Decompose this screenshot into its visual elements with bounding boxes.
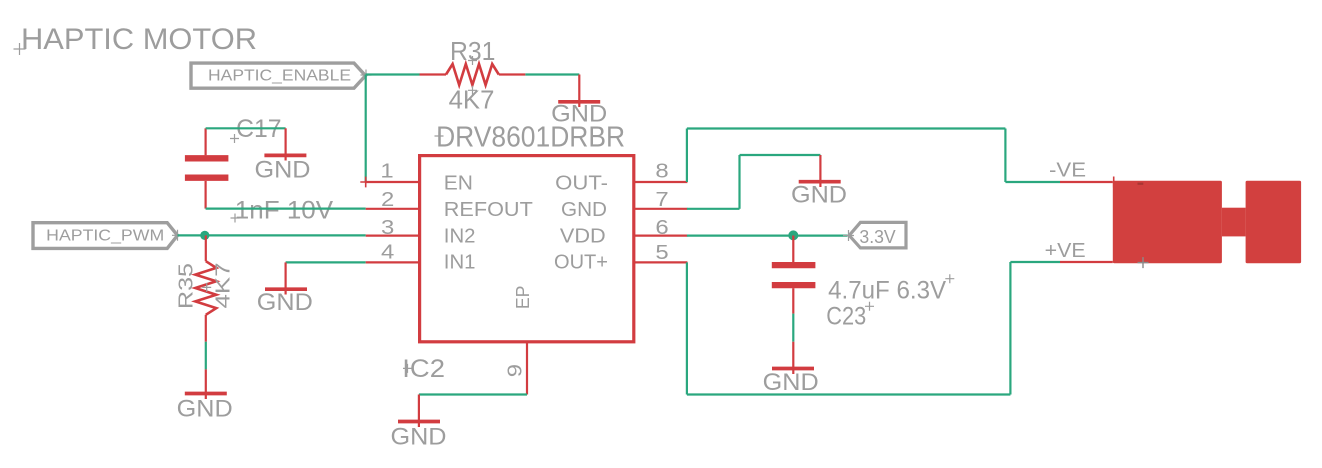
wire HAPTIC_ENABLE down to pin 1: [365, 75, 367, 183]
motor pin +VE stub: [1060, 261, 1113, 263]
pin 4 IN1 stub: [366, 261, 420, 263]
DRV label origin cross: [435, 132, 444, 141]
resistor R35: [195, 235, 216, 341]
svg-text:IN1: IN1: [444, 252, 476, 274]
svg-text:9: 9: [505, 364, 527, 377]
svg-text:1nF 10V: 1nF 10V: [235, 196, 334, 224]
pin 3 IN2 stub: [366, 235, 420, 237]
svg-text:GND: GND: [791, 182, 847, 209]
svg-text:6: 6: [655, 217, 668, 239]
wire pin 5 OUT+ down and right to +VE: [687, 262, 1060, 395]
wire R35 to GND: [205, 342, 207, 370]
R35 origin cross: [202, 283, 211, 292]
ground GND of pin 4: [257, 262, 313, 316]
resistor R31: [420, 64, 526, 85]
title origin cross: [14, 43, 26, 55]
wire R31 to GND drop point: [525, 73, 579, 75]
svg-text:EN: EN: [444, 173, 473, 195]
svg-text:4K7: 4K7: [449, 85, 495, 115]
motor minus polarity mark: [1138, 183, 1144, 185]
1nF origin cross: [231, 214, 240, 223]
R31 text origin crosses: [468, 56, 477, 95]
svg-text:DRV8601DRBR: DRV8601DRBR: [436, 122, 625, 154]
ground GND of pin 7: [791, 155, 847, 209]
svg-text:5: 5: [655, 242, 668, 264]
pin 8 OUT- stub: [634, 181, 688, 183]
svg-text:-VE: -VE: [1049, 160, 1086, 182]
C23 origin cross: [865, 302, 874, 311]
svg-text:OUT-: OUT-: [555, 173, 608, 195]
node HAPTIC_PWM tip cross: [172, 230, 183, 241]
motor M1 body: [1113, 181, 1301, 263]
pin 1 EN stub: [366, 181, 420, 183]
wire HAPTIC_ENABLE to R31: [366, 73, 420, 75]
ground GND of pin 9 EP: [391, 395, 447, 451]
capacitor C23: [772, 236, 816, 314]
svg-text:3: 3: [381, 217, 394, 239]
svg-text:OUT+: OUT+: [554, 252, 608, 274]
wire pin 6 VDD to 3.3V tag: [687, 235, 848, 237]
4.7uF origin cross: [945, 274, 954, 283]
svg-text:IN2: IN2: [444, 226, 476, 248]
motor pin -VE stub: [1060, 181, 1113, 183]
svg-text:2: 2: [381, 189, 394, 211]
svg-text:VDD: VDD: [560, 226, 606, 248]
pin 5 OUT+ stub: [634, 261, 688, 263]
svg-text:GND: GND: [177, 396, 233, 423]
svg-text:R35: R35: [175, 263, 197, 309]
pin 6 VDD stub: [634, 235, 688, 237]
net tag HAPTIC_ENABLE: [191, 63, 366, 88]
node HAPTIC_ENABLE tip cross: [361, 70, 372, 81]
wire C23 to GND: [792, 314, 794, 342]
ground GND of C17: [255, 128, 311, 183]
svg-text:7: 7: [655, 189, 668, 211]
pin 1 connect cross: [360, 177, 371, 188]
wire pin 8 OUT- up and right to -VE: [687, 129, 1060, 183]
capacitor C17: [185, 128, 229, 208]
ground GND of R31: [551, 75, 607, 128]
svg-text:4K7: 4K7: [212, 263, 234, 309]
motor plus polarity cross: [1138, 257, 1149, 268]
op-amp / driver IC2 DRV8601 box: [420, 156, 634, 342]
pin 2 REFOUT stub: [366, 208, 420, 210]
svg-text:4: 4: [381, 242, 394, 264]
svg-text:HAPTIC_ENABLE: HAPTIC_ENABLE: [208, 68, 351, 85]
junction HAPTIC_PWM / R35: [200, 231, 209, 240]
svg-text:REFOUT: REFOUT: [444, 199, 533, 221]
supply tag 3.3V: [849, 222, 906, 248]
svg-text:HAPTIC_PWM: HAPTIC_PWM: [46, 228, 164, 245]
junction VDD / C23: [788, 230, 798, 240]
svg-text:+VE: +VE: [1045, 240, 1086, 262]
motor -VE pin cross tick: [1113, 177, 1115, 188]
svg-text:4.7uF 6.3V: 4.7uF 6.3V: [828, 277, 946, 305]
ground GND of C23: [763, 342, 819, 396]
svg-text:GND: GND: [763, 369, 819, 396]
pin 9 EP stub: [526, 342, 528, 395]
wire C17 bottom to pin 2 REFOUT: [206, 208, 366, 210]
ground GND of R35: [177, 369, 233, 422]
wire HAPTIC_PWM to pin 3 IN2: [178, 234, 366, 236]
svg-text:IC2: IC2: [402, 355, 445, 383]
svg-text:C23: C23: [826, 303, 866, 331]
svg-text:GND: GND: [391, 424, 447, 451]
3.3V tip cross: [843, 230, 854, 241]
svg-text:8: 8: [655, 161, 668, 183]
svg-text:GND: GND: [561, 199, 607, 221]
C17 origin cross: [230, 134, 239, 143]
wire C17 top to GND: [206, 127, 286, 129]
svg-text:3.3V: 3.3V: [859, 227, 895, 247]
svg-text:HAPTIC MOTOR: HAPTIC MOTOR: [21, 23, 257, 56]
svg-text:GND: GND: [257, 289, 313, 316]
pin 7 GND stub: [634, 208, 688, 210]
wire pin 4 IN1 to GND: [286, 261, 366, 263]
net tag HAPTIC_PWM: [33, 223, 178, 249]
svg-text:EP: EP: [512, 286, 533, 310]
wire pin 9 to GND: [419, 393, 527, 395]
svg-text:GND: GND: [255, 157, 311, 184]
svg-text:1: 1: [380, 161, 393, 183]
IC2 origin cross: [403, 364, 412, 373]
wire pin 7 to GND: [687, 155, 821, 209]
